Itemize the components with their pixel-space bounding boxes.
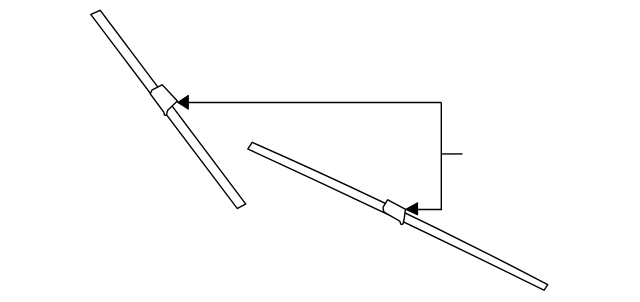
- arrowhead pointing at blade 1 connector: [177, 95, 188, 109]
- vertical callout spine: [440, 103, 442, 210]
- connector clip on blade 2: [383, 200, 405, 225]
- tick mark on spine: [441, 153, 462, 155]
- wiper blade 2 (lower, shallow diagonal): [248, 142, 548, 290]
- callout leader line to blade 2: [417, 209, 442, 211]
- connector clip on blade 1: [150, 85, 177, 116]
- callout leader line to blade 1: [188, 102, 441, 104]
- wiper blade 1 (upper left, steep diagonal): [91, 10, 246, 208]
- arrowhead pointing at blade 2 connector: [405, 203, 417, 215]
